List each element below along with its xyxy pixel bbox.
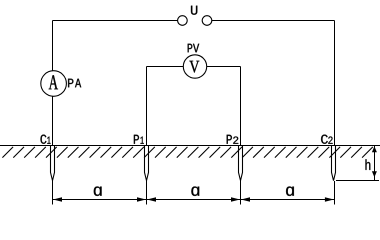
wire from ammeter down to electrode C1 <box>52 96 54 145</box>
ammeter letter A <box>49 75 58 89</box>
wire top-right horizontal from right U terminal to C2 column <box>212 20 335 22</box>
extension line below C1 <box>52 181 54 205</box>
wire right vertical from top wire down to electrode C2 <box>333 21 335 146</box>
label a (P1-P2) <box>191 187 199 196</box>
label P1 <box>134 135 139 144</box>
label a (C1-P1) <box>94 187 102 196</box>
voltmeter PV circle <box>183 55 206 78</box>
depth tick line at electrode tip level <box>336 180 379 182</box>
extension line below C2 <box>333 181 335 205</box>
wire right vertical down to electrode P2 <box>240 67 242 146</box>
electrode P2 <box>239 146 243 181</box>
label a (P2-C2) <box>286 187 294 196</box>
extension line below P1 <box>146 181 148 205</box>
voltmeter letter V <box>189 61 199 73</box>
wire voltmeter left horizontal <box>147 66 184 68</box>
wire top-left horizontal from C1 column to left U terminal <box>53 20 178 22</box>
ammeter PA circle <box>41 71 67 97</box>
label h <box>366 159 371 170</box>
electrode P1 <box>145 146 149 181</box>
electrode C2 <box>332 146 336 181</box>
terminal circle right of U <box>202 16 212 26</box>
ground hatching <box>2 147 372 158</box>
electrode C1 <box>51 146 55 181</box>
label U <box>191 6 197 15</box>
depth dimension arrow h <box>373 146 375 181</box>
wire voltmeter right horizontal <box>207 66 241 68</box>
dimension line a between C1 and P1 <box>53 199 146 201</box>
label P2 <box>227 135 232 144</box>
label C2 <box>321 135 328 144</box>
label PV <box>188 44 193 53</box>
ground surface line <box>0 145 380 147</box>
dimension line a between P1 and P2 <box>147 199 240 201</box>
extension line below P2 <box>240 181 242 205</box>
label PA <box>68 79 73 88</box>
wire left vertical down to electrode P1 <box>146 67 148 146</box>
dimension line a between P2 and C2 <box>241 199 334 201</box>
wire left vertical from top wire to ammeter <box>52 21 54 71</box>
label C1 <box>41 135 47 144</box>
terminal circle left of U <box>178 16 188 26</box>
